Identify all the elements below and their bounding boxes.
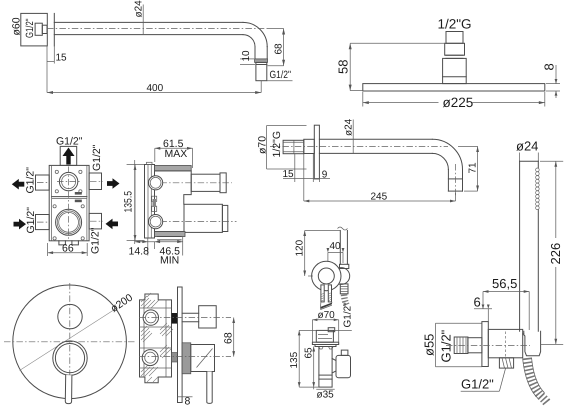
tiny markings <box>75 192 82 195</box>
dia55 dim bracket <box>436 322 482 324</box>
tip outlet box <box>256 62 267 80</box>
wall face line <box>53 13 55 46</box>
arm bend inner <box>243 35 255 47</box>
spray outlet stub (threaded, below lobe) <box>340 284 348 294</box>
svg-text:14.8: 14.8 <box>129 246 150 258</box>
dim 245 extension right <box>455 193 457 201</box>
plate top clip <box>147 162 153 164</box>
lower valve circle <box>56 209 82 235</box>
trim plate <box>178 287 183 403</box>
svg-text:MAX: MAX <box>165 148 188 160</box>
arm bend outer <box>243 22 267 46</box>
svg-text:245: 245 <box>371 192 388 203</box>
elbow body <box>488 329 522 357</box>
tip nut (gray ring) <box>255 59 268 63</box>
svg-text:G1/2": G1/2" <box>25 167 37 194</box>
dim 225 extensions <box>362 92 364 107</box>
small square top right <box>328 328 335 332</box>
dia24 leader <box>352 120 354 154</box>
dim 225 line <box>363 102 439 104</box>
wall flange edge <box>482 322 488 367</box>
tip G1/2 underline leader <box>267 80 293 82</box>
svg-text:G1/2": G1/2" <box>25 207 37 234</box>
body bottom hatched flange <box>155 232 186 237</box>
dim 135.5 extensions <box>127 163 145 165</box>
spout drop <box>447 170 449 192</box>
dim 135 extensions <box>299 329 316 331</box>
dim 15 extension lines <box>46 46 48 93</box>
dims 15 and 9 : extensions <box>294 154 296 182</box>
diverter knob <box>199 306 217 328</box>
dim 68 extensions <box>268 28 284 30</box>
dim 6 line <box>474 308 492 310</box>
svg-text:40: 40 <box>330 241 342 252</box>
dim 400 line <box>47 92 261 94</box>
threaded nipple <box>283 140 304 153</box>
supply nipple threaded <box>454 337 468 354</box>
handle centerline <box>139 356 231 358</box>
svg-text:400: 400 <box>147 83 164 94</box>
svg-text:8: 8 <box>542 63 557 70</box>
dim 135 line <box>298 330 300 387</box>
hose break squiggle <box>338 227 348 230</box>
left-bottom arrow (in, right) <box>14 219 27 230</box>
arm tube top line <box>54 21 243 23</box>
dim 8 tick <box>178 396 193 398</box>
svg-text:58: 58 <box>336 60 351 74</box>
top port arrow (up, filled) <box>63 148 75 165</box>
pipe division lines <box>319 374 332 376</box>
hatch patches <box>141 293 173 382</box>
arm drop tube <box>254 47 256 59</box>
top port <box>60 146 76 165</box>
shut-off knob <box>336 355 351 377</box>
svg-text:MIN: MIN <box>160 255 179 267</box>
wand holder cup attach <box>523 333 524 335</box>
bottom trim lines <box>158 236 182 238</box>
head plate <box>363 84 545 91</box>
centerline vertical of drop <box>455 164 457 196</box>
wand bottom cup <box>524 331 541 355</box>
middle divider band <box>52 196 87 198</box>
horizontal centerline <box>4 341 136 343</box>
lever rod <box>207 372 212 404</box>
body dashed centerlines <box>446 344 530 346</box>
dia24 extension stubs <box>519 153 521 162</box>
holder round plate <box>312 261 341 290</box>
svg-text:G1/2": G1/2" <box>90 227 102 254</box>
dia200 leader line <box>20 310 115 371</box>
body top hatched flange <box>155 166 192 171</box>
diverter knob circle <box>58 304 82 328</box>
dim 10 extensions <box>240 58 254 60</box>
left-bottom port <box>36 215 50 230</box>
bottom dim line <box>135 241 183 243</box>
body inner wall lines <box>51 165 53 240</box>
svg-text:71: 71 <box>468 162 479 174</box>
small fittings between circles <box>152 196 157 201</box>
svg-text:15: 15 <box>56 53 68 64</box>
right-top arrow (out, right) <box>107 178 120 189</box>
flange circles on plate <box>149 176 163 190</box>
wand body sides <box>519 161 521 331</box>
small feet below flange <box>319 347 334 350</box>
dia70 extensions <box>311 320 313 342</box>
housing internals <box>318 334 328 336</box>
svg-text:ø225: ø225 <box>443 95 474 110</box>
connector top nipple <box>446 32 463 44</box>
dim 56,5 line <box>483 291 529 293</box>
svg-text:226: 226 <box>548 243 563 265</box>
svg-text:68: 68 <box>274 43 285 55</box>
lever stem <box>65 375 72 404</box>
centerline stub <box>308 275 313 277</box>
svg-text:65: 65 <box>304 347 315 359</box>
right-top port <box>89 173 101 190</box>
upper screws <box>55 170 58 173</box>
holder right lobe <box>333 268 350 285</box>
upper port circle <box>143 310 158 325</box>
centerline of arm <box>47 28 270 30</box>
dim 8 line <box>555 65 557 84</box>
hose outlet nut <box>499 358 513 368</box>
lower circle centerlines <box>68 167 70 240</box>
right-bottom arrow (in, left) <box>106 219 119 230</box>
svg-text:66: 66 <box>62 243 74 255</box>
spout bend inner <box>432 153 448 169</box>
svg-text:10: 10 <box>241 50 252 62</box>
bottom feet <box>59 241 66 245</box>
dim 15 line <box>47 60 54 62</box>
nipple collar <box>468 338 482 353</box>
holder inner circle <box>318 268 334 284</box>
wall flange (escutcheon, edge view) <box>314 125 319 179</box>
body main block <box>155 171 192 232</box>
dim 66 extensions <box>47 243 49 256</box>
svg-text:6: 6 <box>474 295 481 310</box>
aerator ring line <box>448 178 462 180</box>
dim 58 line <box>349 43 351 90</box>
svg-text:15: 15 <box>283 169 295 180</box>
handle ring inner <box>55 344 84 373</box>
svg-text:G1/2": G1/2" <box>91 144 103 171</box>
handle base (gray) <box>182 343 191 374</box>
svg-text:120: 120 <box>295 239 306 256</box>
svg-text:8: 8 <box>185 396 191 408</box>
dia35 line <box>316 388 334 390</box>
spout end <box>448 190 462 192</box>
dim 120 line <box>304 231 306 277</box>
coiled hose <box>527 358 548 404</box>
svg-text:G1/2": G1/2" <box>24 18 36 38</box>
spout bend outer <box>432 139 462 169</box>
dia70 dim line <box>312 319 338 321</box>
lower port cylinder <box>184 204 222 232</box>
connector lower block <box>443 58 467 83</box>
svg-text:G1/2": G1/2" <box>270 69 292 81</box>
dim 40 extensions <box>327 252 329 261</box>
right-bottom port <box>89 213 101 229</box>
svg-text:ø24: ø24 <box>344 118 355 136</box>
dim 66 line <box>48 252 88 254</box>
svg-text:ø70: ø70 <box>318 310 336 321</box>
dim 58 extensions <box>350 42 445 44</box>
G1/2 leader <box>333 329 351 331</box>
plate circle <box>13 285 127 399</box>
collar <box>304 139 315 153</box>
handle cylinder <box>191 345 215 372</box>
diverter centerline <box>139 317 231 319</box>
dim 226 line <box>555 161 557 238</box>
lower port circle <box>142 350 158 366</box>
lower stem block <box>172 353 178 363</box>
spout tube top <box>319 138 432 140</box>
dim 61.5 line <box>155 147 193 149</box>
dim 8 extensions <box>546 83 560 85</box>
upper port cylinder <box>191 174 220 191</box>
wall flange plate <box>21 13 48 46</box>
svg-text:ø60: ø60 <box>11 17 23 35</box>
vertical pipe <box>319 347 332 388</box>
upper cartridge circle <box>59 172 77 190</box>
short coil below stub <box>344 295 347 306</box>
body outer <box>49 165 89 240</box>
dim 400 extension from tip <box>260 81 262 93</box>
left-top arrow (out, left) <box>12 179 24 190</box>
handle split diagonal <box>197 349 213 368</box>
svg-text:ø35: ø35 <box>317 390 335 401</box>
dim 71 extensions <box>458 145 478 147</box>
threaded inlet stub <box>35 23 42 35</box>
connector step <box>446 54 463 56</box>
dim 135.5 line <box>134 164 136 240</box>
supply hose (from above, broken) <box>339 231 341 265</box>
svg-text:56,5: 56,5 <box>492 276 517 291</box>
svg-text:1/2"G: 1/2"G <box>271 131 283 158</box>
escutcheon plates <box>312 342 338 344</box>
svg-text:ø24: ø24 <box>516 139 538 154</box>
connector middle section <box>445 43 465 55</box>
upper port centerline <box>148 182 232 184</box>
wand top <box>520 160 539 162</box>
dim 120 top extension <box>305 230 341 232</box>
svg-text:ø24: ø24 <box>134 0 145 18</box>
mounting plate (edge view) <box>145 165 155 239</box>
upper stem through plate (black) <box>172 313 178 324</box>
dim 245 line <box>304 200 456 202</box>
handle ring outer <box>53 341 87 375</box>
dim 56,5 extensions <box>482 292 484 309</box>
knob neck <box>341 350 348 355</box>
dim line 15/9 <box>283 178 330 180</box>
dim 40 line <box>328 251 343 253</box>
dim 68 line <box>233 318 235 357</box>
dim 71 line <box>477 146 479 191</box>
valve housing <box>316 330 333 342</box>
svg-text:ø55: ø55 <box>422 334 437 356</box>
left-top port <box>36 175 50 190</box>
svg-text:G1/2": G1/2" <box>56 136 83 148</box>
dim 61.5 extensions <box>154 148 156 162</box>
svg-text:9: 9 <box>322 170 328 181</box>
svg-text:G1/2": G1/2" <box>343 302 354 328</box>
svg-text:135.5: 135.5 <box>123 191 135 213</box>
body internal lines <box>140 307 172 309</box>
diverter knob stem <box>182 312 199 314</box>
valve body rough-in (left, hatched) <box>140 294 172 383</box>
lower port centerline <box>148 221 237 223</box>
hose nut <box>340 264 349 268</box>
dia70 dim line <box>266 126 268 170</box>
bottom dim extensions <box>134 160 136 244</box>
vertical centerline <box>69 283 71 401</box>
dia24 leader line <box>142 5 144 36</box>
svg-text:G1/2": G1/2" <box>439 329 454 362</box>
pipe boss to knob <box>332 359 336 374</box>
svg-text:68: 68 <box>223 332 235 344</box>
lower screws <box>53 205 56 208</box>
svg-text:G1/2": G1/2" <box>461 377 494 392</box>
dim 226 extensions <box>540 160 563 162</box>
arm tube bottom line <box>54 34 243 36</box>
spout tube bottom <box>319 152 432 154</box>
svg-text:1/2"G: 1/2"G <box>438 17 472 32</box>
dim 68 line <box>283 29 285 66</box>
knurl bead chain <box>536 168 540 210</box>
svg-text:135: 135 <box>289 351 300 368</box>
dim 65 line <box>313 347 315 388</box>
hand spray handle (two prongs + tilted tip) <box>320 285 332 310</box>
centerline horizontal <box>270 145 448 147</box>
G1/2 leader <box>461 390 500 392</box>
